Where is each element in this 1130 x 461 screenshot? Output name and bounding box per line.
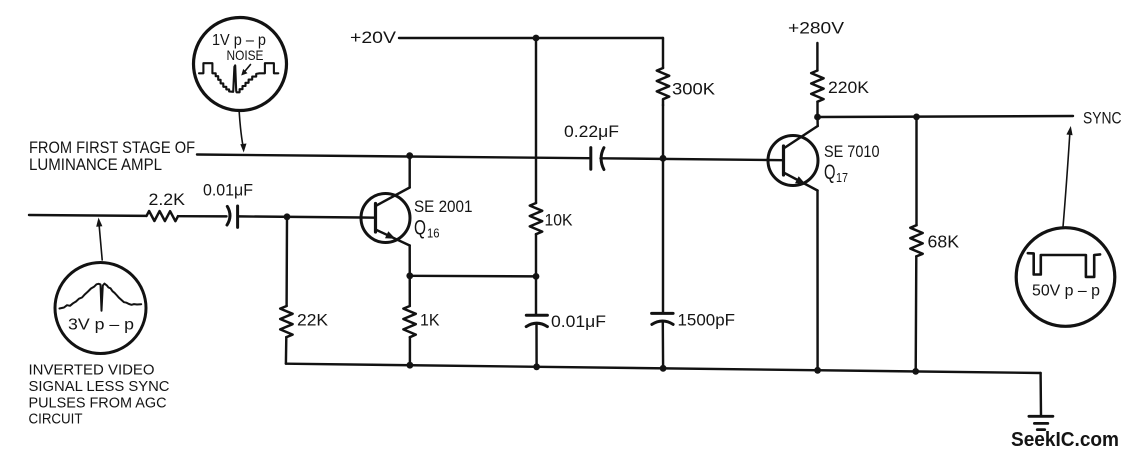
svg-text:Q: Q xyxy=(414,217,426,240)
svg-text:68K: 68K xyxy=(928,232,960,252)
capacitor 1500pF curved bottom plate xyxy=(652,321,673,324)
50V annotation circle xyxy=(1016,228,1115,327)
capacitor 0.22uF left plate xyxy=(589,148,592,170)
resistor 220K xyxy=(811,71,823,102)
resistor 300K xyxy=(657,68,669,105)
transistor Q16 circle xyxy=(361,194,410,243)
svg-text:SeekIC.com: SeekIC.com xyxy=(1011,429,1119,451)
wire ground drop xyxy=(1039,373,1042,416)
transistor Q17 emitter arrowhead xyxy=(795,176,806,184)
wire 68K bottom lead xyxy=(914,256,917,371)
svg-text:17: 17 xyxy=(836,170,848,185)
capacitor 0.22uF right curved plate xyxy=(601,148,604,170)
svg-text:+20V: +20V xyxy=(350,28,397,47)
svg-text:NOISE: NOISE xyxy=(227,47,264,63)
wire luminance line xyxy=(197,155,589,159)
wire Q17 emitter vertical xyxy=(816,191,819,371)
svg-text:INVERTED VIDEO: INVERTED VIDEO xyxy=(29,362,155,379)
svg-text:300K: 300K xyxy=(672,80,716,99)
svg-text:16: 16 xyxy=(427,225,440,240)
svg-text:SE 2001: SE 2001 xyxy=(414,197,473,216)
wire 300K top lead from +20V corner xyxy=(662,38,664,68)
svg-text:SE 7010: SE 7010 xyxy=(824,142,880,161)
node 220K/Q17 collector xyxy=(814,114,821,121)
wire 1500pF bottom lead xyxy=(662,322,665,368)
node luminance/Q16 collector xyxy=(406,152,413,159)
transistor Q16 emitter arrowhead xyxy=(385,231,396,239)
node bottom 68K xyxy=(912,368,919,375)
wire 0.01uF shunt top lead xyxy=(535,276,537,314)
node bottom 0.01uF xyxy=(533,363,540,370)
wire 10K upper vertical xyxy=(535,38,537,203)
node bottom 1500pF xyxy=(660,365,667,372)
node bottom 1K xyxy=(407,362,414,369)
node emitter link right xyxy=(533,273,540,280)
wire +280V lead xyxy=(816,43,818,71)
svg-text:+280V: +280V xyxy=(788,19,845,38)
noise annotation circle xyxy=(194,18,287,111)
wire 300K bottom lead xyxy=(662,105,664,158)
svg-text:0.01μF: 0.01μF xyxy=(551,312,606,331)
wire 0.01uF shunt bottom lead xyxy=(535,324,538,367)
arrow 3V circle to input line xyxy=(96,218,102,261)
transistor Q17 collector diagonal xyxy=(784,126,818,149)
svg-text:FROM FIRST STAGE OF: FROM FIRST STAGE OF xyxy=(29,139,195,157)
node bottom Q17 emitter xyxy=(814,367,821,374)
wire 22K top lead xyxy=(285,217,288,306)
svg-text:2.2K: 2.2K xyxy=(149,190,186,209)
svg-text:LUMINANCE AMPL: LUMINANCE AMPL xyxy=(29,156,162,174)
wire Q17 collector vertical xyxy=(816,117,819,126)
wire 68K top vertical xyxy=(915,117,917,225)
wire Q17 base lead xyxy=(768,159,784,162)
svg-text:22K: 22K xyxy=(297,311,329,330)
svg-text:Q: Q xyxy=(824,161,836,184)
capacitor 0.01uF shunt top plate xyxy=(526,314,547,317)
resistor 22K xyxy=(280,306,292,337)
wire 300K node to 1500pF xyxy=(662,158,664,312)
wire Q16 emitter vertical xyxy=(408,246,411,307)
label FROM FIRST STAGE OF / LUMINANCE AMPL xyxy=(29,139,195,174)
label INVERTED VIDEO block xyxy=(29,362,170,428)
wire 22K bottom lead xyxy=(285,337,288,364)
3V video waveform xyxy=(60,284,142,311)
wire emitter link xyxy=(410,275,536,278)
noise pointer arrow inside circle xyxy=(241,65,250,76)
capacitor 0.01uF input curved plate xyxy=(227,206,230,225)
arrow 50V circle to SYNC xyxy=(1063,126,1073,227)
capacitor 0.01uF shunt curved bottom plate xyxy=(526,323,547,326)
transistor Q16 emitter diagonal xyxy=(376,230,410,246)
wire bottom ground rail xyxy=(286,364,1041,373)
ground symbol xyxy=(1029,416,1053,429)
transistor Q17 base bar xyxy=(782,146,785,175)
wire Q16 collector vertical xyxy=(408,156,410,188)
node input/22K junction xyxy=(284,213,291,220)
transistor Q17 circle xyxy=(768,136,818,186)
svg-text:10K: 10K xyxy=(545,211,574,230)
arrow noise circle to luminance line xyxy=(239,112,246,153)
wire 220K bottom lead xyxy=(816,102,818,117)
transistor Q16 collector diagonal xyxy=(376,188,410,207)
svg-text:1500pF: 1500pF xyxy=(678,311,736,330)
resistor 68K xyxy=(910,225,922,256)
wire 1K bottom lead xyxy=(409,337,411,365)
node luminance/300K xyxy=(660,155,667,162)
3V annotation circle xyxy=(55,263,146,354)
transistor Q17 emitter diagonal xyxy=(784,173,818,191)
svg-text:3V p – p: 3V p – p xyxy=(68,317,134,334)
svg-text:0.01μF: 0.01μF xyxy=(203,181,253,200)
svg-text:50V p – p: 50V p – p xyxy=(1032,283,1100,300)
resistor 2.2K xyxy=(147,211,179,221)
transistor Q16 base bar xyxy=(374,204,377,233)
resistor 10K xyxy=(530,203,542,234)
node +20V/10K junction xyxy=(533,35,540,42)
wire 10K bottom lead xyxy=(535,234,537,276)
svg-text:0.22μF: 0.22μF xyxy=(564,122,619,141)
capacitor 1500pF top plate xyxy=(652,312,674,315)
wire luminance line right of 0.22uF xyxy=(601,158,769,160)
capacitor 0.01uF input right plate xyxy=(236,206,239,227)
wire input line right xyxy=(239,216,361,217)
noise waveform xyxy=(199,63,278,92)
svg-text:SIGNAL LESS SYNC: SIGNAL LESS SYNC xyxy=(29,378,170,395)
svg-text:CIRCUIT: CIRCUIT xyxy=(29,411,83,428)
50V sync pulse waveform xyxy=(1028,253,1100,277)
svg-text:1K: 1K xyxy=(420,311,440,330)
wire input line mid xyxy=(178,215,227,218)
svg-text:PULSES FROM AGC: PULSES FROM AGC xyxy=(29,395,167,412)
wire +20V rail xyxy=(399,37,663,39)
wire SYNC line xyxy=(818,116,1074,117)
svg-text:220K: 220K xyxy=(828,78,870,97)
svg-text:SYNC: SYNC xyxy=(1083,110,1122,128)
resistor 1K xyxy=(403,306,415,337)
node emitter link left xyxy=(406,272,413,279)
node SYNC/68K junction xyxy=(913,114,920,121)
wire Q16 base lead xyxy=(361,216,376,219)
wire input line left xyxy=(29,214,147,217)
